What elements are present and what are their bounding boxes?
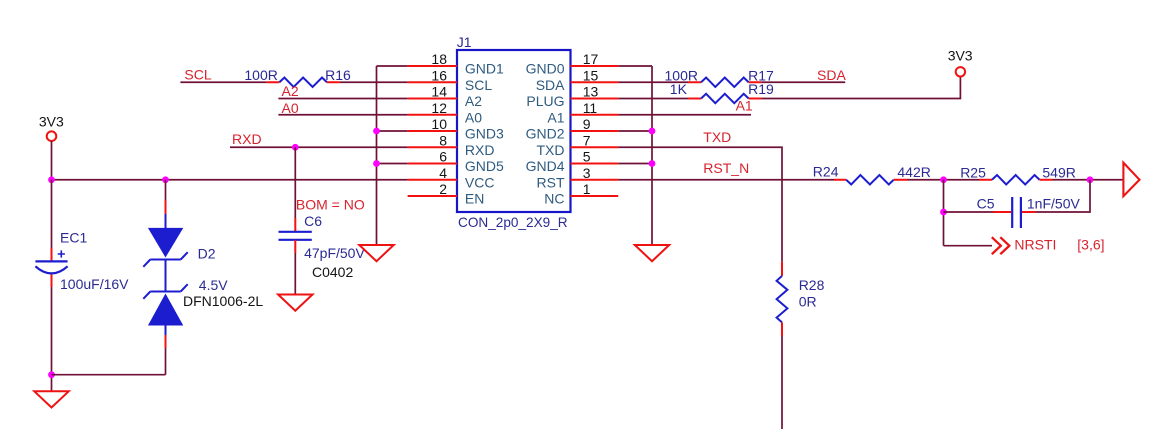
- pin 1 stub: [571, 195, 619, 197]
- wire pin15 to R17: [618, 81, 688, 83]
- svg-text:R19: R19: [748, 81, 774, 97]
- power symbol 3V3 (left): [47, 131, 57, 141]
- svg-text:549R: 549R: [1042, 164, 1075, 180]
- svg-text:1: 1: [583, 181, 591, 197]
- wire R28 down: [781, 336, 783, 429]
- svg-text:R28: R28: [799, 277, 825, 293]
- svg-text:A0: A0: [465, 109, 482, 125]
- resistor R25: [992, 175, 1040, 184]
- EC1 top pin: [51, 248, 53, 261]
- pin 3 stub: [571, 179, 619, 181]
- R19 left pin: [688, 98, 701, 100]
- wire VCC rail: [52, 179, 408, 181]
- pin 5 stub: [571, 163, 619, 165]
- pin 17 stub: [571, 65, 619, 67]
- pin 6 stub: [408, 163, 457, 165]
- svg-text:C0402: C0402: [312, 264, 353, 280]
- svg-text:SCL: SCL: [184, 67, 211, 83]
- power symbol 3V3 (right): [956, 67, 965, 76]
- wire SCL: [180, 81, 266, 83]
- junction GND5: [373, 160, 380, 167]
- diode D2 upper zener bar: [143, 252, 187, 267]
- svg-text:7: 7: [583, 132, 591, 148]
- R28 top pin: [781, 262, 783, 276]
- junction GND3: [373, 128, 380, 135]
- pin 2 stub: [408, 195, 457, 197]
- wire D2 return: [52, 374, 166, 376]
- wire C6 to ground: [294, 253, 296, 295]
- wire R19 to 3V3: [762, 77, 961, 99]
- wire node to C5: [943, 180, 945, 246]
- svg-text:11: 11: [583, 100, 598, 116]
- svg-text:BOM = NO: BOM = NO: [296, 196, 365, 212]
- svg-text:RST_N: RST_N: [703, 160, 749, 176]
- svg-text:18: 18: [431, 51, 447, 67]
- svg-text:NC: NC: [544, 191, 564, 207]
- svg-text:3: 3: [583, 165, 591, 181]
- svg-text:3V3: 3V3: [948, 48, 973, 64]
- junction rail/EC1: [48, 176, 55, 183]
- diode D2 upper triangle: [149, 228, 183, 256]
- diode D2 lower triangle: [149, 295, 183, 326]
- svg-text:16: 16: [431, 67, 447, 83]
- svg-text:A2: A2: [282, 83, 299, 99]
- ground (left): [34, 391, 68, 407]
- svg-text:GND2: GND2: [526, 126, 565, 142]
- capacitor C5 right plate: [1020, 197, 1022, 228]
- R28 bottom pin: [781, 322, 783, 336]
- wire RXD to C6: [294, 147, 296, 218]
- svg-text:6: 6: [439, 149, 447, 165]
- wire pin10 GND3: [377, 130, 408, 132]
- junction rail/D2: [162, 176, 169, 183]
- svg-text:14: 14: [431, 84, 447, 100]
- svg-text:5: 5: [583, 149, 591, 165]
- capacitor EC1 top plate: [35, 260, 67, 262]
- pin 13 stub: [571, 98, 619, 100]
- capacitor C5 left plate: [1011, 197, 1013, 228]
- svg-text:R25: R25: [960, 164, 986, 180]
- pin 14 stub: [408, 98, 457, 100]
- svg-text:RXD: RXD: [465, 142, 495, 158]
- svg-text:8: 8: [439, 132, 447, 148]
- capacitor EC1 plus sign: [58, 250, 65, 257]
- svg-text:TXD: TXD: [703, 129, 731, 145]
- svg-text:SCL: SCL: [465, 77, 492, 93]
- svg-text:RXD: RXD: [232, 131, 262, 147]
- svg-text:A2: A2: [465, 93, 482, 109]
- svg-text:A1: A1: [736, 98, 753, 114]
- junction NRST node: [940, 176, 947, 183]
- svg-text:47pF/50V: 47pF/50V: [304, 245, 365, 261]
- R19 right pin: [749, 98, 762, 100]
- wire rail to EC1: [51, 180, 53, 248]
- R25 right pin: [1040, 179, 1053, 181]
- svg-text:EC1: EC1: [60, 230, 87, 246]
- svg-text:4.5V: 4.5V: [199, 277, 228, 293]
- svg-text:R24: R24: [813, 163, 839, 179]
- svg-text:A1: A1: [547, 109, 564, 125]
- wire RXD: [230, 146, 408, 148]
- junction R25/C5 right: [1087, 176, 1094, 183]
- pin 18 stub: [408, 65, 457, 67]
- svg-text:1nF/50V: 1nF/50V: [1027, 196, 1081, 212]
- wire R25 to arrow: [1053, 179, 1124, 181]
- diode D2 bottom lead: [165, 325, 167, 335]
- svg-text:[3,6]: [3,6]: [1077, 237, 1104, 253]
- svg-text:15: 15: [583, 67, 599, 83]
- svg-text:9: 9: [583, 116, 591, 132]
- svg-text:GND3: GND3: [465, 126, 504, 142]
- wire EC1 to ground: [51, 287, 53, 391]
- capacitor EC1 curved plate: [35, 266, 67, 273]
- resistor R16: [279, 78, 327, 87]
- pin 16 stub: [408, 81, 457, 83]
- wire SDA: [762, 81, 846, 83]
- svg-text:TXD: TXD: [537, 142, 565, 158]
- C6 bottom pin: [294, 240, 296, 253]
- wire rail to D2: [165, 180, 167, 200]
- ground (J1 left): [359, 245, 393, 261]
- svg-text:C5: C5: [977, 196, 995, 212]
- svg-text:C6: C6: [304, 213, 322, 229]
- wire R24 to R25: [908, 179, 980, 181]
- svg-text:D2: D2: [198, 245, 216, 261]
- capacitor C6 top plate: [279, 231, 312, 233]
- svg-text:10: 10: [431, 116, 447, 132]
- junction RXD/C6: [292, 144, 299, 151]
- wire R16 to pin16: [340, 81, 408, 83]
- svg-text:4: 4: [439, 165, 447, 181]
- pin 12 stub: [408, 114, 457, 116]
- ground (C6): [278, 295, 312, 311]
- wire 3V3 to rail: [51, 141, 53, 180]
- EC1 bottom pin: [51, 275, 53, 287]
- wire pin9 GND2: [618, 130, 652, 132]
- svg-text:VCC: VCC: [465, 174, 495, 190]
- R16 right pin: [327, 81, 340, 83]
- wire A2: [278, 98, 407, 100]
- wire A0: [278, 114, 407, 116]
- off-page chevrons NRSTI: [992, 237, 1010, 254]
- resistor R24: [846, 175, 894, 184]
- svg-text:GND0: GND0: [526, 61, 565, 77]
- junction GND4: [649, 160, 656, 167]
- pin 11 stub: [571, 114, 619, 116]
- svg-text:DFN1006-2L: DFN1006-2L: [183, 293, 263, 309]
- wire pin17 GND0: [618, 65, 652, 67]
- R25 left pin: [979, 179, 992, 181]
- pin 4 stub: [408, 179, 457, 181]
- wire pin18 GND1: [377, 65, 408, 67]
- R24 left pin: [834, 179, 846, 181]
- wire pin6 GND5: [377, 163, 408, 165]
- svg-text:GND5: GND5: [465, 158, 504, 174]
- C5 right pin: [1022, 211, 1036, 213]
- wire NRSTI: [944, 245, 993, 247]
- svg-text:13: 13: [583, 84, 599, 100]
- svg-text:0R: 0R: [799, 294, 817, 310]
- D2 bottom pin: [165, 335, 167, 348]
- ground (J1 right): [635, 245, 669, 261]
- svg-text:SDA: SDA: [817, 67, 846, 83]
- svg-text:EN: EN: [465, 191, 484, 207]
- R17 right pin: [749, 81, 762, 83]
- svg-text:100uF/16V: 100uF/16V: [60, 276, 129, 292]
- R16 left pin: [266, 81, 279, 83]
- connector J1 body: [457, 50, 571, 212]
- svg-text:100R: 100R: [244, 67, 277, 83]
- off-page arrow: [1123, 163, 1139, 197]
- diode D2 lower zener bar: [143, 284, 187, 299]
- svg-text:12: 12: [431, 100, 447, 116]
- svg-text:1K: 1K: [670, 81, 688, 97]
- svg-text:GND1: GND1: [465, 61, 504, 77]
- wire A1: [618, 114, 751, 116]
- svg-text:CON_2p0_2X9_R: CON_2p0_2X9_R: [458, 215, 568, 230]
- svg-text:NRSTI: NRSTI: [1014, 237, 1056, 253]
- C6 top pin: [294, 218, 296, 232]
- capacitor C6 bottom plate: [279, 239, 312, 241]
- wire pin5 GND4: [618, 163, 652, 165]
- R17 left pin: [688, 81, 701, 83]
- D2 top pin: [165, 200, 167, 214]
- svg-text:17: 17: [583, 51, 599, 67]
- pin 10 stub: [408, 130, 457, 132]
- R24 right pin: [894, 179, 908, 181]
- svg-text:A0: A0: [282, 100, 299, 116]
- svg-text:R16: R16: [325, 67, 351, 83]
- pin 7 stub: [571, 146, 619, 148]
- wire RST_N: [618, 179, 834, 181]
- svg-text:SDA: SDA: [536, 77, 565, 93]
- C5 left pin: [993, 211, 1011, 213]
- junction GND2: [649, 128, 656, 135]
- resistor R28: [777, 276, 788, 323]
- wire D2 to return: [165, 348, 167, 375]
- svg-text:442R: 442R: [897, 164, 930, 180]
- svg-text:3V3: 3V3: [39, 114, 64, 130]
- pin 9 stub: [571, 130, 619, 132]
- resistor R19: [701, 94, 749, 103]
- diode D2 top lead: [165, 214, 167, 228]
- resistor R17: [701, 78, 749, 87]
- svg-text:PLUG: PLUG: [526, 93, 564, 109]
- wire GND bus right: [651, 66, 653, 245]
- wire pin13 to R19: [618, 98, 688, 100]
- svg-text:GND4: GND4: [526, 158, 565, 174]
- wire TXD: [618, 147, 782, 262]
- svg-text:2: 2: [439, 181, 447, 197]
- diode D2 middle lead: [165, 260, 167, 292]
- pin 8 stub: [408, 146, 457, 148]
- wire GND bus left: [376, 66, 378, 245]
- junction D2 return: [48, 371, 55, 378]
- svg-text:RST: RST: [537, 174, 565, 190]
- svg-text:J1: J1: [457, 34, 472, 50]
- junction C5 branch: [940, 209, 947, 216]
- wire C5 left: [944, 211, 994, 213]
- wire C5 right: [1036, 180, 1090, 212]
- pin 15 stub: [571, 81, 619, 83]
